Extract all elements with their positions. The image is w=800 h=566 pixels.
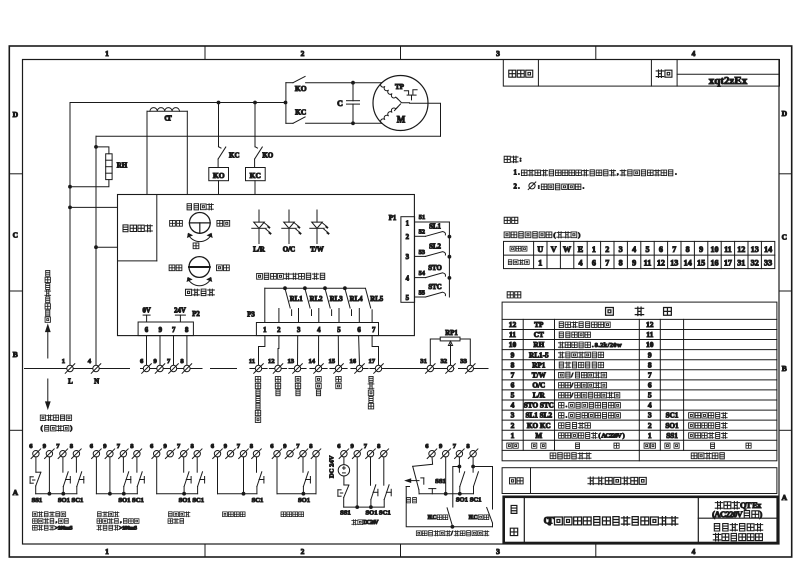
group4 note — [223, 512, 246, 517]
svg-text:D: D — [13, 110, 19, 119]
group2 note line2 — [97, 519, 139, 525]
table2 column separators — [522, 319, 524, 450]
svg-text:31: 31 — [420, 358, 427, 365]
svg-text:53: 53 — [419, 249, 425, 256]
svg-text:SO1: SO1 — [365, 509, 377, 516]
svg-text:9: 9 — [159, 327, 163, 334]
indicator LED O/C open-close lamp — [288, 210, 290, 222]
svg-text:): ) — [760, 510, 763, 519]
svg-text:33: 33 — [764, 258, 772, 267]
svg-text:11: 11 — [724, 245, 732, 254]
svg-text:RH: RH — [117, 162, 128, 170]
label 电源变换 — [123, 225, 152, 232]
applicability line1 — [715, 501, 762, 510]
svg-text:SC1: SC1 — [379, 509, 391, 516]
limit switch SL1 — [415, 235, 426, 237]
svg-text:17: 17 — [724, 258, 732, 267]
svg-text:C: C — [782, 233, 787, 242]
zone tick marks bottom band — [204, 544, 206, 557]
svg-text:STO: STO — [428, 265, 441, 272]
current transformer CT coil — [150, 108, 180, 112]
group5 button SO1 — [302, 457, 304, 472]
vertical note 电动装置内部接线 — [45, 270, 51, 322]
svg-text:/: / — [570, 392, 573, 399]
junction dots on bus1 — [217, 101, 221, 105]
connector P2 — [138, 322, 193, 336]
vertical label 开到位 — [275, 377, 280, 396]
notes heading 说明 — [504, 155, 522, 163]
svg-text:): ) — [623, 432, 625, 439]
svg-text:2: 2 — [605, 245, 609, 254]
group2 button SC1 — [136, 457, 138, 472]
svg-text:2: 2 — [648, 421, 652, 430]
svg-text:SS1: SS1 — [435, 478, 446, 485]
svg-text:9: 9 — [648, 350, 652, 359]
svg-text:RP1: RP1 — [445, 330, 458, 337]
RP1 wiper arrow — [450, 344, 452, 366]
group1 note line1 — [33, 512, 66, 517]
svg-text:7: 7 — [172, 327, 176, 334]
svg-text:52: 52 — [419, 229, 425, 236]
svg-text:T/W: T/W — [532, 371, 547, 379]
zone tick marks right band — [779, 173, 792, 175]
label 称 — [510, 528, 517, 535]
group1 close button SC1 — [75, 457, 77, 472]
svg-text:(: ( — [553, 232, 555, 239]
motor internal lead to right terminal — [397, 98, 410, 103]
svg-text:6: 6 — [659, 245, 663, 254]
svg-text:P3: P3 — [247, 312, 255, 319]
zone tick marks top band — [204, 46, 206, 60]
svg-text:/: / — [570, 382, 573, 389]
svg-text:STC: STC — [428, 284, 441, 291]
table1 row1 header 端子号 — [510, 246, 527, 251]
svg-text:5: 5 — [337, 327, 341, 334]
svg-text:L/R: L/R — [253, 246, 266, 254]
table2 bottom location row — [550, 453, 591, 459]
svg-text:2: 2 — [511, 421, 515, 430]
svg-text:RL5: RL5 — [370, 296, 383, 303]
svg-text:12: 12 — [509, 320, 517, 329]
svg-text:KC: KC — [250, 171, 261, 180]
company line2 — [713, 533, 762, 540]
svg-text:O/C: O/C — [283, 246, 295, 254]
svg-text:M: M — [535, 432, 542, 440]
svg-text:SO1: SO1 — [298, 497, 310, 504]
selector knob rotation arrow — [188, 234, 212, 242]
svg-text:54: 54 — [419, 270, 426, 277]
bottom-right title block border — [504, 497, 778, 543]
svg-text:QT Ex: QT Ex — [740, 501, 762, 510]
svg-text:SO1: SO1 — [118, 497, 130, 504]
group6 button SC1 — [383, 457, 385, 485]
svg-text:8: 8 — [185, 327, 189, 334]
group4 button SC1 — [256, 457, 258, 472]
heater resistor RH — [106, 154, 112, 180]
table2 component table outer + header — [502, 302, 777, 461]
terminal 16 — [356, 365, 362, 371]
terminal 14 — [315, 365, 321, 371]
svg-text:3: 3 — [496, 49, 500, 58]
svg-text:4: 4 — [692, 49, 696, 58]
svg-text:W: W — [563, 245, 571, 254]
note 1 — [514, 170, 678, 177]
svg-text:8: 8 — [619, 258, 623, 267]
group2 wires from 6 and 9 — [95, 457, 97, 494]
group7 wire from 9 — [445, 457, 447, 494]
svg-text:1: 1 — [514, 170, 518, 177]
group5 note — [281, 512, 304, 517]
svg-text:1: 1 — [263, 327, 267, 334]
svg-text:>100mS: >100mS — [119, 525, 137, 531]
svg-text:SC1: SC1 — [666, 412, 679, 420]
svg-text:7: 7 — [605, 258, 609, 267]
open/close knob rotation arrow — [188, 278, 212, 286]
svg-text:(: ( — [41, 425, 43, 432]
note 控制室接线 — [40, 415, 71, 421]
svg-text:C: C — [13, 231, 18, 240]
svg-text:SS1: SS1 — [666, 432, 678, 440]
svg-text:16: 16 — [710, 258, 718, 267]
svg-text:SS1: SS1 — [340, 509, 351, 516]
wire: N vertical from bus2 down to terminal 4/N — [95, 136, 97, 365]
svg-text:5: 5 — [648, 391, 652, 400]
label 选择旋钮 — [187, 204, 213, 210]
svg-text:RP1: RP1 — [532, 361, 546, 369]
svg-text:A: A — [782, 493, 788, 502]
note 2 — [514, 184, 521, 191]
label N — [94, 377, 99, 385]
svg-text:KC: KC — [295, 108, 306, 117]
svg-text:4: 4 — [632, 245, 636, 254]
svg-text:1: 1 — [105, 547, 109, 556]
group4 wires from 6 and 7 — [217, 457, 219, 494]
svg-text:KO: KO — [295, 84, 307, 93]
stub segments around terminals 11-17 — [250, 368, 267, 370]
main title QT系列阀门电动装置电气原理图 — [544, 516, 678, 527]
svg-text:15: 15 — [329, 358, 336, 365]
svg-text:2: 2 — [301, 49, 305, 58]
svg-text:12: 12 — [646, 320, 654, 329]
terminal 13 — [294, 365, 300, 371]
svg-text:4: 4 — [692, 547, 696, 556]
stubs around terminals 31-33 — [422, 368, 454, 370]
table2 row separators — [502, 328, 777, 330]
group1 common wire — [36, 493, 77, 495]
label 合同号 — [509, 70, 533, 77]
indicator LED L/R local-remote lamp — [258, 210, 260, 222]
svg-text:TP: TP — [534, 321, 544, 329]
svg-text:U: U — [537, 245, 543, 254]
group1 wire from 9 — [48, 457, 50, 494]
power converter sub-box 电源变换 — [156, 195, 158, 261]
vertical label 过力矩 — [316, 377, 321, 396]
svg-text:0V: 0V — [142, 307, 150, 314]
svg-text:SL1: SL1 — [429, 224, 441, 231]
group2 common wire — [96, 493, 137, 495]
svg-text:): ) — [70, 425, 72, 432]
group6 stop button SS1 — [343, 476, 345, 485]
svg-text:24V: 24V — [174, 307, 186, 314]
svg-text:1: 1 — [511, 431, 515, 440]
table2 caption 表二 — [507, 292, 521, 298]
applicability line2 — [712, 510, 762, 519]
wire: L phase bus (bus1) — [70, 102, 286, 104]
group6 button SO1 — [370, 457, 372, 485]
terminal 9 (row B) — [157, 365, 163, 371]
svg-text:1: 1 — [406, 221, 410, 228]
group1 note line3 — [33, 525, 73, 531]
label 停 — [193, 243, 199, 249]
wire: L vertical from bus1 down to terminal 1/L — [69, 103, 71, 366]
group3 wire from 6 — [156, 457, 158, 494]
label PLC关阀 — [469, 515, 489, 521]
svg-text:D: D — [782, 109, 788, 118]
terminal 6 (row B) — [143, 365, 149, 371]
svg-text:8: 8 — [686, 245, 690, 254]
svg-text:3: 3 — [511, 411, 515, 420]
svg-text:1: 1 — [648, 431, 652, 440]
limit switch common wire pin 51 — [415, 221, 450, 223]
control unit enclosure box — [118, 195, 415, 336]
svg-text:3: 3 — [619, 245, 623, 254]
group3 note line1 — [169, 512, 190, 517]
svg-text:7: 7 — [372, 327, 376, 334]
svg-text:AC220V: AC220V — [601, 432, 622, 439]
svg-text:6: 6 — [511, 380, 515, 389]
terminal 7 (row B) — [170, 365, 176, 371]
svg-text:SL1 SL2: SL1 SL2 — [526, 412, 553, 420]
wire: KC contact to capacitor/motor bottom — [306, 122, 382, 124]
svg-text:3: 3 — [297, 327, 301, 334]
PLC open-valve branch — [453, 467, 460, 508]
svg-text:L/R: L/R — [533, 392, 546, 400]
svg-text:11: 11 — [509, 330, 516, 339]
svg-text:RL3: RL3 — [330, 296, 343, 303]
table2 title 元件表 — [606, 307, 614, 315]
svg-text:PLC: PLC — [428, 515, 437, 521]
label 开阀 — [169, 265, 182, 271]
svg-text:11: 11 — [644, 258, 652, 267]
svg-text:SO1: SO1 — [665, 422, 679, 430]
selector direction arrow — [409, 480, 419, 482]
label 关阀 — [217, 265, 230, 271]
svg-text:8: 8 — [648, 360, 652, 369]
svg-text:B: B — [782, 364, 787, 373]
capacitor C — [352, 83, 354, 101]
svg-text:5: 5 — [511, 391, 515, 400]
contactor contact KO (to motor top) — [286, 82, 293, 84]
svg-text:N: N — [94, 377, 99, 385]
svg-text:14: 14 — [684, 258, 692, 267]
svg-text:T/W: T/W — [310, 246, 324, 254]
svg-text:3: 3 — [648, 411, 652, 420]
svg-text:/: / — [570, 372, 573, 379]
label 运程 — [217, 220, 230, 226]
svg-text:6: 6 — [357, 327, 361, 334]
svg-text:E: E — [578, 245, 583, 254]
svg-text:KO KC: KO KC — [527, 422, 551, 430]
svg-text:SC1: SC1 — [252, 497, 264, 504]
svg-text:3: 3 — [406, 254, 410, 261]
terminal 12 — [275, 365, 281, 371]
svg-text:M: M — [397, 115, 406, 125]
table1 terminal cross-reference table — [504, 241, 775, 268]
svg-text:DC24V: DC24V — [363, 520, 379, 526]
P3 wires down to terminals 11-17 — [259, 336, 265, 366]
contactor KO/KC common vertical — [285, 83, 287, 124]
connector P1 — [401, 217, 415, 303]
svg-text:7: 7 — [648, 370, 652, 379]
svg-text:11: 11 — [249, 358, 255, 365]
motor M circle — [373, 76, 428, 131]
svg-text:32: 32 — [751, 258, 759, 267]
svg-text:TP: TP — [395, 83, 405, 91]
svg-text:/: / — [450, 531, 453, 537]
svg-text:CT: CT — [164, 115, 172, 123]
svg-text:1: 1 — [538, 258, 542, 267]
label 控制装置 — [185, 289, 214, 296]
relay common bus from P3 pin1 — [265, 287, 366, 289]
svg-text:16: 16 — [350, 358, 357, 365]
group2 button SO1 — [122, 457, 124, 472]
svg-text:SS1: SS1 — [32, 497, 43, 504]
svg-text:15: 15 — [697, 258, 705, 267]
svg-text:12: 12 — [268, 358, 275, 365]
limit switch SL2 — [415, 255, 426, 257]
zone tick marks left band — [9, 173, 22, 175]
label L — [68, 377, 73, 385]
note 继电器均为非激励状态 — [257, 273, 325, 279]
svg-text:SC1: SC1 — [192, 497, 204, 504]
wire: KO contact to capacitor/motor top — [306, 82, 382, 84]
svg-text:7: 7 — [672, 245, 676, 254]
svg-text:xqt2zEx: xqt2zEx — [709, 75, 748, 87]
svg-text:SO1: SO1 — [58, 497, 70, 504]
selector T actuator — [429, 488, 436, 490]
svg-text:SC1: SC1 — [72, 497, 84, 504]
connector P3 — [256, 323, 378, 336]
svg-text:13: 13 — [670, 258, 678, 267]
terminal 1 L — [67, 365, 73, 371]
group4 common wire — [218, 493, 257, 495]
motor main winding coil — [381, 83, 398, 99]
svg-text:17: 17 — [369, 358, 376, 365]
terminal 11 — [255, 365, 261, 371]
svg-text:33: 33 — [460, 358, 467, 365]
heater resistor RH tap from N wire — [94, 145, 98, 149]
group6 note 外供DC24V — [352, 520, 380, 526]
motor aux winding coil — [381, 107, 398, 123]
limit switch STC — [415, 296, 426, 298]
group6 wire from 9 — [356, 457, 358, 507]
svg-text:KO: KO — [262, 152, 273, 160]
svg-text:32: 32 — [441, 358, 448, 365]
group2 note line3 — [97, 525, 137, 531]
PLC close-valve branch — [473, 467, 492, 510]
svg-text:51: 51 — [419, 214, 425, 221]
power converter feed L — [68, 206, 72, 210]
table1 subtitle — [504, 232, 580, 239]
indicator LED T/W trouble-power lamp — [316, 210, 318, 222]
svg-text:SC1: SC1 — [132, 497, 144, 504]
current transformer CT secondary legs — [146, 111, 148, 194]
svg-text:RL1: RL1 — [290, 296, 303, 303]
group5 wires from 6 and 8 — [276, 457, 278, 494]
svg-text:SO1: SO1 — [456, 496, 468, 503]
group1 note line2 — [33, 519, 69, 525]
relay contact RL1 — [283, 286, 287, 290]
svg-text:RH: RH — [533, 341, 544, 349]
svg-text:L: L — [68, 377, 73, 385]
contactor coil KC box — [246, 168, 266, 181]
svg-text:KO: KO — [213, 171, 225, 180]
label 名 — [511, 505, 517, 513]
RH bottom lead to L wire — [70, 180, 109, 187]
note （仅供参考） — [41, 425, 73, 432]
svg-text:5: 5 — [645, 245, 649, 254]
svg-text:RL4: RL4 — [350, 296, 363, 303]
table1 row2 header 电路图号 — [508, 260, 529, 265]
terminal 4 N — [93, 365, 99, 371]
svg-text:CT: CT — [534, 331, 544, 339]
vertical label 关到位 — [295, 377, 300, 396]
relay contact RL3 — [323, 286, 327, 290]
label 备注 — [509, 478, 523, 484]
svg-text:P1: P1 — [389, 215, 397, 222]
svg-text:6: 6 — [592, 258, 596, 267]
svg-text::: : — [519, 155, 521, 163]
power converter feed N — [94, 245, 98, 249]
svg-text:RL1-5: RL1-5 — [529, 351, 549, 359]
user terminal symbol in note 2 — [529, 183, 535, 189]
svg-text:2: 2 — [277, 327, 281, 334]
terminals 31 32 33 — [427, 365, 433, 371]
svg-text:KC: KC — [229, 152, 240, 160]
group3 note line2 — [168, 519, 184, 524]
svg-text:10: 10 — [710, 245, 718, 254]
svg-text:1: 1 — [592, 245, 596, 254]
DC 24V source circle — [343, 457, 345, 465]
label 选择 — [407, 498, 417, 503]
limit switch common vertical — [448, 222, 450, 297]
group5 common wire — [277, 493, 316, 495]
remark text 防爆整体基本型 — [588, 477, 646, 484]
svg-text:4: 4 — [511, 401, 515, 410]
svg-text:11: 11 — [646, 330, 653, 339]
limit switch STO — [415, 277, 426, 279]
selector lower contact to common — [418, 490, 420, 494]
group7 common wire — [419, 493, 473, 495]
svg-text:9: 9 — [511, 350, 515, 359]
svg-text:2: 2 — [301, 547, 305, 556]
svg-text:7: 7 — [511, 370, 515, 379]
contactor contact KC (to motor aux) — [286, 122, 293, 124]
label PLC开阀 — [428, 515, 448, 521]
svg-text:31: 31 — [737, 258, 745, 267]
svg-text:RL2: RL2 — [310, 296, 323, 303]
group3 button SC1 — [196, 457, 198, 472]
selector switch SS1 (manual/PLC) — [413, 457, 433, 466]
svg-text:(AC220V: (AC220V — [712, 510, 743, 519]
svg-text:A: A — [13, 488, 19, 497]
svg-text:V: V — [551, 245, 557, 254]
svg-text:4: 4 — [317, 327, 321, 334]
svg-text:5: 5 — [406, 295, 410, 302]
terminal 8 (row B) — [184, 365, 190, 371]
vertical label 无源接点共用端 — [255, 377, 260, 423]
svg-text:): ) — [578, 232, 580, 239]
